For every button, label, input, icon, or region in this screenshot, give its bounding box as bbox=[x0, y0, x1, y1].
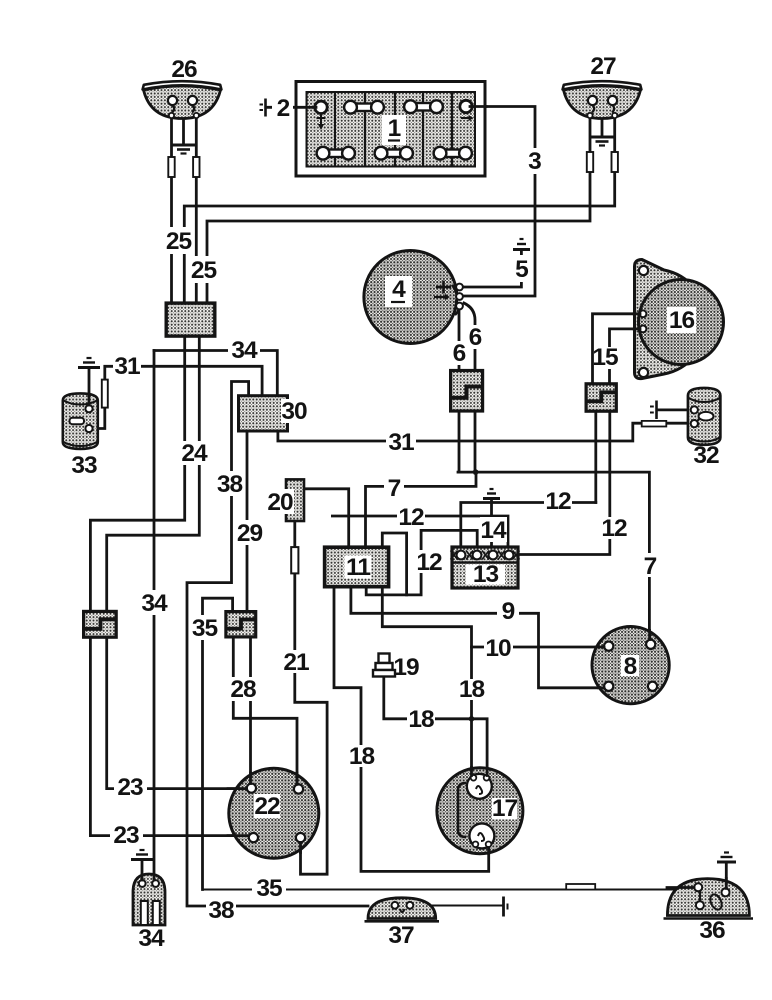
wire 3 tail out of battery bbox=[470, 105, 486, 108]
wire 23 (to distributor 22 lower left) bbox=[90, 637, 253, 835]
svg-text:7: 7 bbox=[644, 553, 657, 580]
label 38 (upper) bbox=[215, 471, 244, 498]
wire 35 (connector down the left side) bbox=[203, 598, 233, 889]
wire earth stem of plug 34 bbox=[141, 861, 144, 884]
horn 4 bbox=[364, 251, 459, 344]
earth cable connector symbol 2 bbox=[260, 99, 266, 117]
horn polarity arrow mark bbox=[434, 294, 450, 300]
svg-text:24: 24 bbox=[181, 440, 208, 467]
wire 28 (right, to distributor 22 upper left) bbox=[249, 637, 252, 781]
wire switch 20 to switch 11 bbox=[304, 489, 349, 547]
wire 18 (switch 19 stem and run to lamp 17 top right) bbox=[384, 676, 487, 778]
wire 6 (right, horn to snap connector) bbox=[464, 303, 475, 370]
dynamo 16 bolt holes bbox=[639, 266, 648, 275]
wire lamp 32 top terminal to earth connector bbox=[658, 408, 692, 411]
wire 21 (switch 20 down to distributor 22) bbox=[295, 521, 327, 874]
snap connector on wire 21 bbox=[291, 547, 298, 573]
label 24 bbox=[179, 440, 209, 467]
wire 24 (left pair upper) bbox=[90, 336, 184, 611]
wire 29 (fuse 30 to connector) bbox=[246, 431, 249, 612]
battery cell divider lines bbox=[335, 92, 452, 167]
snap connectors on headlamp 26 leads bbox=[168, 157, 174, 177]
wire from headlamp 27 right lead to connector (upper run) bbox=[184, 112, 614, 303]
label 25 (left pair) bbox=[164, 227, 193, 255]
connector block (35/29 to 28 wires) bbox=[226, 612, 256, 637]
wire 34 (long left vertical to plug) bbox=[153, 351, 156, 885]
earth symbol 14 bbox=[483, 489, 500, 499]
wire 18 (switch 11 down to tail lamp 17 bottom) bbox=[334, 587, 489, 872]
wire 18 tails into tail lamp 17 bbox=[470, 768, 473, 776]
wire 15 (dynamo 16 lower lead) bbox=[610, 329, 642, 384]
label 12 (main run right) bbox=[544, 488, 572, 515]
svg-text:7: 7 bbox=[388, 475, 401, 502]
label 21 bbox=[283, 649, 309, 676]
wire 14 (earth stem to fuse 13 terminal 3) bbox=[490, 500, 493, 547]
snap connector on wire to lamp 32 bbox=[642, 421, 667, 427]
svg-text:19: 19 bbox=[393, 654, 419, 681]
label 3 bbox=[524, 148, 545, 175]
battery terminal (positive, left) bbox=[315, 101, 327, 113]
battery cell link top 1 bbox=[344, 101, 384, 114]
ignition coil 8 bbox=[592, 627, 669, 704]
label 18 (long vertical) bbox=[348, 743, 375, 770]
svg-text:11: 11 bbox=[346, 554, 370, 581]
dynamo 16 bracket plate bbox=[635, 260, 707, 379]
wire 7 (junction to component 8 top right) bbox=[458, 472, 649, 644]
svg-text:28: 28 bbox=[230, 676, 256, 703]
label 23 (upper) bbox=[114, 774, 147, 801]
earth symbol of lamp 36 bbox=[717, 853, 736, 863]
svg-text:25: 25 bbox=[191, 257, 217, 284]
battery terminal (right) bbox=[460, 100, 472, 112]
tail lamp 17 bbox=[437, 768, 523, 854]
label 10 bbox=[484, 635, 513, 662]
earth symbol 5 bbox=[513, 239, 530, 250]
svg-text:6: 6 bbox=[469, 324, 482, 351]
svg-text:25: 25 bbox=[166, 228, 192, 255]
earth stem tail into lamp 33 bbox=[88, 394, 91, 405]
label 2 bbox=[272, 95, 293, 122]
lamp 33 bbox=[63, 393, 98, 449]
svg-text:12: 12 bbox=[416, 549, 442, 576]
svg-text:4: 4 bbox=[392, 276, 406, 303]
label 6 (left) bbox=[450, 340, 468, 367]
svg-text:23: 23 bbox=[113, 822, 139, 849]
label 34 (top run) bbox=[228, 337, 260, 364]
fuse block 13 bbox=[451, 547, 520, 588]
label 38 (bottom run) bbox=[206, 897, 236, 924]
label 31 (middle run) bbox=[386, 429, 416, 456]
plug 34 bbox=[133, 874, 165, 925]
svg-text:38: 38 bbox=[217, 471, 243, 498]
fuse unit 30 bbox=[239, 396, 288, 431]
label 7 (upper) bbox=[384, 475, 404, 502]
wire 9 tail into coil 8 bbox=[599, 686, 605, 689]
wire 23 tails into distributor 22 bbox=[228, 787, 247, 790]
wire 21 tail into distributor 22 bbox=[299, 843, 302, 853]
label 14 bbox=[480, 517, 507, 544]
dynamo 16 terminals bbox=[640, 310, 647, 317]
wire 23 (to distributor 22 upper left) bbox=[107, 637, 252, 788]
battery cell link top 2 bbox=[404, 100, 443, 113]
dynamo 16 body bbox=[639, 280, 724, 365]
svg-text:32: 32 bbox=[693, 442, 719, 469]
junction dot 18/19 bbox=[469, 716, 475, 722]
label 1 bbox=[382, 115, 406, 145]
wire 3 (battery to horn terminal) bbox=[462, 107, 535, 297]
svg-text:5: 5 bbox=[515, 256, 528, 283]
label 7 (lower) bbox=[640, 553, 659, 580]
svg-text:12: 12 bbox=[601, 515, 627, 542]
terminal symbol at end of wire 38 bbox=[504, 897, 508, 917]
svg-text:8: 8 bbox=[624, 653, 637, 680]
label 23 (lower) bbox=[110, 822, 143, 849]
snap connector on wire 31 from lamp 33 bbox=[102, 380, 108, 408]
wire 12 (switch 11 to fuse 13 terminal 4) bbox=[332, 516, 508, 547]
svg-text:2: 2 bbox=[277, 95, 290, 122]
wire 15 (dynamo 16 upper lead) bbox=[593, 314, 642, 384]
wire 12 (dynamo connector right lead down to fuse 13) bbox=[516, 411, 610, 554]
svg-text:23: 23 bbox=[117, 774, 143, 801]
label 34 (long left vertical) bbox=[139, 590, 169, 617]
earth symbol of headlamp 27 bbox=[591, 137, 614, 146]
wire 9 (switch 11 to component 8 bottom left) bbox=[351, 587, 609, 688]
svg-text:17: 17 bbox=[492, 795, 518, 822]
junction dot 6/7 bbox=[473, 469, 479, 475]
svg-text:15: 15 bbox=[592, 344, 618, 371]
wire 31 (fuse 30 to lamp 32) bbox=[278, 423, 691, 441]
label 12 (row to 13 T4) bbox=[397, 504, 425, 531]
svg-text:13: 13 bbox=[473, 561, 499, 588]
svg-text:34: 34 bbox=[231, 337, 258, 364]
svg-text:6: 6 bbox=[453, 340, 466, 367]
wire 18 (vertical to tail lamp 17 top left) bbox=[470, 647, 473, 778]
number plate lamp 37 bbox=[365, 898, 440, 922]
earth symbol above lamp 33 bbox=[78, 358, 100, 368]
connector block below headlamp 26 bbox=[166, 303, 215, 336]
svg-text:33: 33 bbox=[71, 452, 97, 479]
battery 1 outer case bbox=[296, 82, 485, 177]
label 4 bbox=[385, 276, 412, 307]
wire 28 tails into distributor 22 bbox=[249, 773, 252, 784]
svg-text:30: 30 bbox=[281, 398, 307, 425]
label 9 bbox=[497, 598, 519, 625]
svg-text:12: 12 bbox=[398, 504, 424, 531]
label 18 (on 19 run) bbox=[407, 706, 435, 733]
label 35 (upper) bbox=[190, 615, 219, 642]
tail lamp 36 bbox=[664, 879, 754, 919]
headlamp 26 bbox=[143, 81, 222, 118]
svg-text:3: 3 bbox=[528, 148, 541, 175]
headlamp 27 bbox=[563, 81, 642, 118]
wire 34 tail into plug 34 bbox=[153, 875, 156, 880]
svg-text:38: 38 bbox=[208, 897, 234, 924]
label 28 bbox=[229, 676, 257, 703]
wire 35 (long bottom run to lamp 36) bbox=[203, 889, 695, 891]
wire 25 (headlamp 26 right lead) bbox=[195, 118, 198, 303]
wire 34 (horizontal run into fuse 30) bbox=[154, 351, 277, 396]
earth cable connector left of lamp 32 bbox=[650, 401, 657, 420]
horn 4 terminals bbox=[456, 284, 463, 291]
label 30 bbox=[281, 398, 307, 425]
label 20 bbox=[267, 489, 294, 516]
battery 1 cells bbox=[307, 92, 476, 167]
svg-text:31: 31 bbox=[388, 429, 414, 456]
wire lamp 33 earth stem bbox=[88, 369, 91, 406]
svg-text:14: 14 bbox=[480, 517, 507, 544]
snap connector on wire 35 bbox=[566, 884, 595, 890]
svg-text:9: 9 bbox=[502, 598, 515, 625]
connector block (24 to 23 wires) bbox=[84, 611, 117, 637]
svg-text:27: 27 bbox=[590, 53, 616, 80]
battery polarity arrow (right terminal) bbox=[461, 115, 474, 121]
label 16 bbox=[667, 307, 696, 334]
wire 24 (left pair lower) bbox=[107, 336, 200, 611]
snap connectors on headlamp 27 leads bbox=[587, 152, 593, 172]
wire 6 (left, horn to snap connector) bbox=[458, 309, 461, 370]
svg-text:18: 18 bbox=[349, 743, 375, 770]
svg-text:34: 34 bbox=[138, 925, 165, 952]
battery cell link bottom 2 bbox=[375, 147, 413, 160]
label 29 bbox=[235, 520, 264, 547]
svg-text:26: 26 bbox=[171, 56, 197, 83]
svg-text:20: 20 bbox=[267, 489, 293, 516]
svg-text:35: 35 bbox=[192, 615, 218, 642]
wire link from switch 11 top-right terminal bbox=[382, 533, 406, 595]
wire 28 (left, to distributor 22 upper right) bbox=[233, 637, 297, 781]
wire earth stem of lamp 36 bbox=[725, 862, 728, 890]
svg-text:37: 37 bbox=[388, 922, 414, 949]
label 12 (far right) bbox=[600, 515, 628, 542]
svg-text:16: 16 bbox=[669, 307, 695, 334]
wire 5 (horn to earth) bbox=[460, 252, 521, 287]
label 31 (left) bbox=[113, 353, 141, 380]
wire 10 tail into coil 8 bbox=[596, 646, 604, 649]
label 5 bbox=[511, 255, 532, 283]
wire 15 tails onto dynamo 16 bbox=[634, 312, 640, 315]
svg-text:34: 34 bbox=[141, 590, 168, 617]
wire 12 (dynamo connector left lead down) bbox=[594, 411, 597, 502]
svg-text:22: 22 bbox=[254, 793, 280, 820]
earth stem tail into lamp 36 bbox=[725, 879, 728, 889]
distributor 22 bbox=[229, 768, 319, 858]
wire 2 (battery positive to earth connector) bbox=[266, 106, 315, 109]
wire 6 pair below connector to junction bbox=[458, 411, 461, 472]
label 12 (vertical link) bbox=[416, 549, 442, 576]
switch 20 bbox=[286, 479, 304, 521]
battery cell link bottom 3 bbox=[434, 147, 472, 160]
wire 10 (switch 11 to component 8 top left) bbox=[382, 587, 608, 647]
horn polarity plus mark bbox=[436, 281, 451, 294]
lamp 32 bbox=[688, 388, 721, 445]
wire headlamp 27 earth stem bbox=[601, 111, 604, 136]
wire 35 tail into lamp 36 bbox=[667, 886, 694, 889]
wire 7 (junction to switch 11) bbox=[366, 472, 477, 547]
wire 31 (lamp 33 to fuse 30) bbox=[89, 366, 262, 428]
wire 12 (switch 11 bottom to fuse 13 terminal 2) bbox=[366, 530, 477, 595]
wire 25 (headlamp 26 left lead) bbox=[170, 118, 173, 303]
svg-text:35: 35 bbox=[256, 875, 282, 902]
earth symbol above plug 34 bbox=[131, 850, 153, 860]
label 25 (right pair) bbox=[189, 256, 218, 284]
svg-text:29: 29 bbox=[237, 520, 263, 547]
svg-text:18: 18 bbox=[408, 706, 434, 733]
svg-text:10: 10 bbox=[485, 635, 511, 662]
wire 2 tail into battery bbox=[296, 106, 316, 109]
battery polarity arrow (down, at positive terminal) bbox=[317, 115, 326, 131]
wire 12 (main run to fuse 13 terminal 1) bbox=[461, 503, 596, 548]
wire 38 (bottom run from lamp 37 to terminal) bbox=[400, 905, 502, 907]
label 15 bbox=[592, 344, 618, 371]
svg-text:36: 36 bbox=[699, 917, 725, 944]
earth symbol of headlamp 26 bbox=[172, 145, 195, 154]
wire headlamp 26 earth stem bbox=[182, 117, 185, 144]
wire 7 tail into coil 8 bbox=[648, 631, 651, 640]
svg-text:12: 12 bbox=[545, 488, 571, 515]
switch 11 bbox=[325, 547, 389, 587]
snap connector block (wires 15) bbox=[586, 384, 616, 411]
earth stem tail into plug 34 bbox=[141, 875, 144, 880]
label 6 (right) bbox=[466, 324, 484, 351]
svg-text:18: 18 bbox=[459, 676, 485, 703]
svg-text:1: 1 bbox=[388, 115, 401, 142]
snap connector block (wires 6) bbox=[451, 371, 483, 412]
label 35 (bottom run) bbox=[252, 875, 286, 902]
switch 19 bbox=[373, 654, 395, 677]
wire from headlamp 27 left lead to connector (lower run) bbox=[207, 112, 590, 303]
label 18 (on vertical) bbox=[459, 676, 485, 703]
wire 38 (fuse 30 stub down left side to bottom) bbox=[187, 382, 368, 907]
svg-text:21: 21 bbox=[283, 649, 309, 676]
svg-text:31: 31 bbox=[114, 353, 140, 380]
battery cell link bottom 1 bbox=[317, 147, 355, 160]
